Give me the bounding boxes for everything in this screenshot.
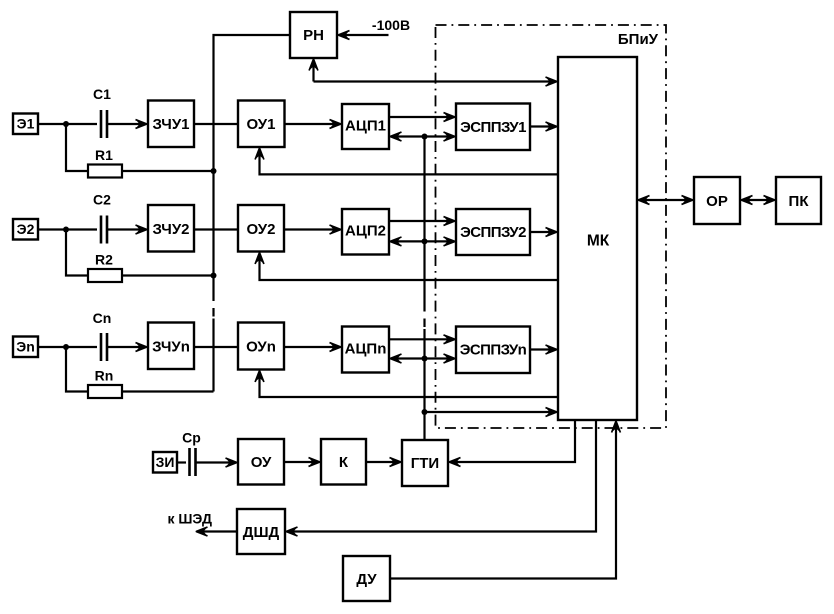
- svg-text:ЭСППЗУ1: ЭСППЗУ1: [460, 119, 526, 136]
- svg-text:ГТИ: ГТИ: [411, 455, 439, 472]
- svg-text:РН: РН: [303, 27, 324, 44]
- svg-text:АЦП1: АЦП1: [345, 118, 386, 135]
- svg-text:C2: C2: [93, 192, 111, 208]
- svg-text:ДШД: ДШД: [243, 524, 280, 541]
- svg-text:ОР: ОР: [706, 193, 728, 210]
- svg-text:АЦПn: АЦПn: [345, 341, 387, 358]
- svg-text:Cn: Cn: [93, 310, 112, 326]
- svg-text:ЗИ: ЗИ: [156, 454, 175, 470]
- svg-text:R2: R2: [95, 252, 113, 268]
- svg-text:Э1: Э1: [17, 116, 35, 132]
- svg-text:Эn: Эn: [16, 339, 35, 355]
- svg-text:Э2: Э2: [17, 221, 35, 237]
- svg-text:R1: R1: [95, 147, 113, 163]
- svg-text:ОУ2: ОУ2: [247, 221, 276, 238]
- svg-text:К: К: [339, 454, 349, 471]
- svg-text:АЦП2: АЦП2: [345, 223, 386, 240]
- svg-text:МК: МК: [587, 233, 610, 250]
- svg-text:ЗЧУ2: ЗЧУ2: [152, 221, 189, 238]
- svg-text:Rn: Rn: [95, 368, 114, 384]
- svg-text:к ШЭД: к ШЭД: [167, 511, 212, 527]
- svg-text:ДУ: ДУ: [356, 571, 377, 588]
- svg-text:БПиУ: БПиУ: [618, 31, 659, 48]
- svg-text:ПК: ПК: [789, 193, 810, 210]
- svg-text:ЗЧУ1: ЗЧУ1: [152, 116, 189, 133]
- svg-text:ЭСППЗУn: ЭСППЗУn: [460, 342, 527, 359]
- svg-text:ОУ1: ОУ1: [247, 116, 276, 133]
- svg-text:ЗЧУn: ЗЧУn: [152, 339, 190, 356]
- svg-text:Ср: Ср: [182, 430, 201, 446]
- svg-text:-100В: -100В: [372, 17, 410, 33]
- svg-text:ОУn: ОУn: [246, 339, 276, 356]
- svg-text:C1: C1: [93, 86, 111, 102]
- svg-text:ЭСППЗУ2: ЭСППЗУ2: [460, 224, 526, 241]
- svg-text:ОУ: ОУ: [251, 454, 272, 471]
